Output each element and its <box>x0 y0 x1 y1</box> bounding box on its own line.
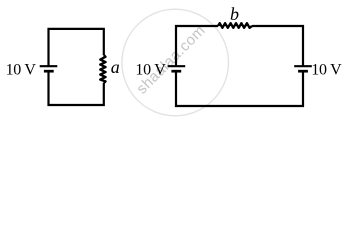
wire: right loop, bottom side <box>176 71 303 106</box>
svg-text:10 V: 10 V <box>135 61 166 78</box>
svg-text:shaalaa.com: shaalaa.com <box>133 22 209 98</box>
resistor a (left circuit, vertical zigzag) <box>100 55 105 83</box>
wire: left loop bottom side <box>49 71 104 105</box>
svg-text:a: a <box>111 57 120 77</box>
svg-text:10 V: 10 V <box>6 61 37 78</box>
wire: left loop top side <box>49 29 104 66</box>
battery B2 (right circuit left side, 10 V) <box>168 66 186 71</box>
wire: right loop, top-left segment <box>176 26 218 66</box>
resistor b (right circuit, horizontal zigzag) <box>218 23 252 28</box>
battery B1 (left circuit, 10 V) <box>40 66 58 71</box>
wire: right loop, top-right segment <box>252 26 303 66</box>
battery B3 (right circuit right side, 10 V) <box>294 66 312 71</box>
svg-text:b: b <box>230 4 239 24</box>
svg-text:10 V: 10 V <box>311 61 342 78</box>
watermark <box>122 9 229 116</box>
